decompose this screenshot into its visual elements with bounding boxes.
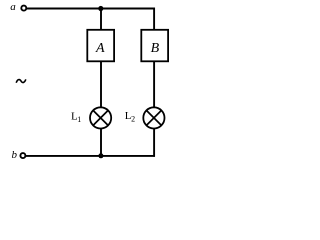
wire lamp L2 to bottom xyxy=(153,129,155,157)
svg-text:A: A xyxy=(95,41,105,56)
terminal b xyxy=(20,153,25,158)
terminal a xyxy=(21,6,26,11)
node junction bottom xyxy=(98,153,103,158)
wire box A to lamp L1 xyxy=(100,61,102,107)
wire box B to lamp L2 xyxy=(153,61,155,107)
node junction top xyxy=(98,6,103,11)
wire branch B vertical top xyxy=(153,8,155,30)
svg-text:a: a xyxy=(10,1,16,13)
box A xyxy=(87,30,114,62)
lamp L1 xyxy=(90,107,111,128)
svg-text:1: 1 xyxy=(77,115,81,124)
wire top horizontal a to corner xyxy=(27,8,155,10)
svg-text:B: B xyxy=(151,41,160,56)
svg-text:b: b xyxy=(12,149,18,161)
wire branch A vertical top xyxy=(100,9,102,31)
lamp L2 xyxy=(143,107,164,128)
box B xyxy=(141,30,168,62)
wire bottom horizontal xyxy=(26,155,155,157)
AC source tilde xyxy=(16,79,26,82)
wire lamp L1 to bottom xyxy=(100,129,102,157)
svg-text:2: 2 xyxy=(131,115,135,124)
